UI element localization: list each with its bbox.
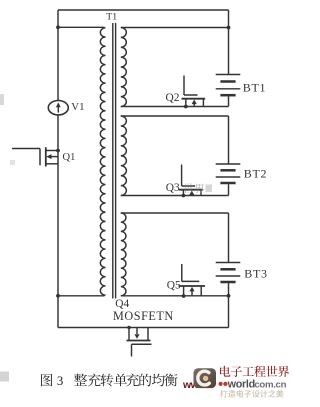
svg-text:Q1: Q1 <box>63 152 76 163</box>
svg-text:Q3: Q3 <box>166 182 180 194</box>
svg-text:Q2: Q2 <box>166 92 180 104</box>
svg-text:BT3: BT3 <box>244 266 267 280</box>
svg-text:V1: V1 <box>71 101 84 113</box>
svg-text:world: world <box>227 378 255 390</box>
svg-text:MOSFETN: MOSFETN <box>113 309 174 323</box>
svg-text:T1: T1 <box>106 11 117 22</box>
svg-text:Q5: Q5 <box>167 280 181 292</box>
svg-text:3: 3 <box>57 374 63 388</box>
svg-text:BT2: BT2 <box>244 167 267 181</box>
svg-text:.com.cn: .com.cn <box>252 379 287 390</box>
svg-text:BT1: BT1 <box>243 81 266 95</box>
